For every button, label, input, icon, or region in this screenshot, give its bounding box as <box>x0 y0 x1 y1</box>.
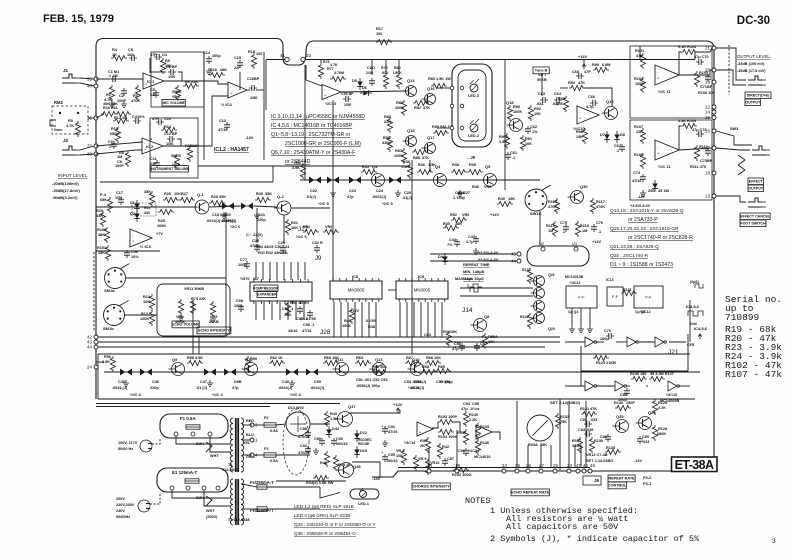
svg-text:.01/50: .01/50 <box>365 319 376 323</box>
svg-text:R101: R101 <box>635 49 644 53</box>
svg-text:FS-1: FS-1 <box>643 482 651 486</box>
DIN connector SM1A <box>105 264 130 289</box>
diode D1 <box>134 200 140 212</box>
svg-text:VR6: VR6 <box>325 225 332 229</box>
svg-text:WHT: WHT <box>206 509 215 513</box>
svg-text:.01 (J): .01 (J) <box>196 386 208 390</box>
wire stub r80 <box>398 60 400 73</box>
svg-text:10%: 10% <box>127 53 135 57</box>
head connector rounded <box>527 246 589 266</box>
svg-text:IC 2: IC 2 <box>146 144 154 149</box>
wire out2 <box>679 148 712 150</box>
capacitor C75 .1 <box>563 224 569 232</box>
resistor R131 47K <box>581 411 597 416</box>
capacitor C4 <box>133 118 141 124</box>
svg-text:LED-2: LED-2 <box>468 134 479 138</box>
wire out2 <box>163 145 204 147</box>
svg-text:Q1~5,8~13,19 : 2SC732TM-GR o: Q1~5,8~13,19 : 2SC732TM-GR or <box>271 132 351 138</box>
fuse F3 <box>264 453 276 457</box>
resistor R12 10K <box>149 294 154 310</box>
wire sm1a to comp <box>126 277 226 279</box>
svg-text:½IC14: ½IC14 <box>468 449 480 453</box>
svg-text:R123: R123 <box>623 288 631 292</box>
svg-text:R43: R43 <box>330 412 337 416</box>
svg-text:IC1.2 : HA1457: IC1.2 : HA1457 <box>214 147 249 153</box>
svg-text:-: - <box>324 87 326 92</box>
resistor R95 <box>563 96 568 112</box>
resistor R14 <box>190 299 195 315</box>
wire heater <box>267 508 320 510</box>
wire J1 sleeve <box>80 83 94 86</box>
svg-text:R39: R39 <box>469 163 476 167</box>
pot VR10 <box>425 459 430 475</box>
diode D44 <box>326 426 332 438</box>
svg-text:R5: R5 <box>165 59 170 63</box>
svg-text:+: + <box>132 239 135 244</box>
resistor R10 <box>101 111 117 116</box>
block preamp2 border <box>150 118 198 178</box>
capacitor C92 470 <box>305 446 311 454</box>
svg-text:Q9: Q9 <box>172 357 178 362</box>
svg-text:OUTPUT LEVEL: OUTPUT LEVEL <box>737 54 770 59</box>
transistor Q21 <box>531 276 545 287</box>
svg-text:½IC 11: ½IC 11 <box>658 164 671 169</box>
LED block border <box>452 64 492 147</box>
svg-text:C96: C96 <box>458 449 465 453</box>
inverter IC15 e <box>615 381 626 391</box>
wire drop short 575 <box>574 445 576 467</box>
wire <box>242 454 252 456</box>
svg-text:47μ: 47μ <box>452 347 459 351</box>
wire IC7 bot pin2 <box>271 302 273 320</box>
resistor R42 <box>437 443 442 459</box>
resistor R17 100 <box>376 39 392 44</box>
resistor R14 <box>161 127 177 132</box>
wire route 166 <box>198 165 410 167</box>
svg-text:IC 1: IC 1 <box>147 79 155 84</box>
svg-text:OUTPUT: OUTPUT <box>748 186 764 190</box>
wire IC7 pin3 <box>276 262 278 280</box>
resistor R11 <box>115 111 131 116</box>
resistor R81 100K <box>401 100 406 116</box>
svg-text:R88: R88 <box>413 156 420 160</box>
label 12.5 <box>695 284 703 288</box>
svg-text:-14V: -14V <box>637 195 645 199</box>
pot VR11 <box>178 299 183 315</box>
wire rail a <box>96 403 340 405</box>
svg-text:680K: 680K <box>657 432 666 436</box>
capacitor C95 100/16 <box>382 454 388 462</box>
wire to LED <box>320 487 340 498</box>
svg-text:R47: R47 <box>344 319 351 323</box>
analog gate <box>221 369 239 376</box>
pin T1-1 <box>250 438 258 443</box>
resistor R150 38K <box>104 227 109 243</box>
svg-text:2 Symbols (J), * indicate cap: 2 Symbols (J), * indicate capacitor of 5… <box>490 534 700 544</box>
wire IC9 pin5 <box>434 302 436 337</box>
transistor Q11 <box>333 363 349 376</box>
resistor R25 <box>158 209 174 214</box>
svg-text:R138: R138 <box>606 446 615 450</box>
resistor R27 40K <box>179 197 195 202</box>
svg-text:C57: C57 <box>480 342 487 346</box>
resistor R129 2.2K <box>652 399 657 415</box>
resistor R151 18K <box>105 245 110 261</box>
svg-text:F2: F2 <box>264 416 268 420</box>
fuse E1 terminals <box>170 486 174 490</box>
svg-text:C5: C5 <box>128 48 133 52</box>
wire J1 tip <box>80 78 94 79</box>
capacitor C5 <box>129 55 137 61</box>
diode D2 <box>134 210 140 222</box>
capacitor C57 <box>474 343 480 351</box>
capacitor C87 <box>442 458 448 466</box>
diode D4 <box>442 253 448 265</box>
svg-text:F-F: F-F <box>578 295 585 300</box>
svg-text:R152 100Ω: R152 100Ω <box>452 473 472 477</box>
svg-text:0.5A: 0.5A <box>270 429 278 433</box>
svg-text:47P: 47P <box>584 70 591 74</box>
svg-text:R80: R80 <box>394 66 401 70</box>
svg-text:J6: J6 <box>594 478 600 483</box>
svg-text:C43: C43 <box>468 235 475 239</box>
svg-text:R108: R108 <box>634 153 643 157</box>
node U3 <box>574 247 578 251</box>
svg-text:13: 13 <box>705 194 710 199</box>
resistor R41 2K <box>425 437 430 453</box>
wire <box>646 385 648 387</box>
capacitor C12 BP <box>167 136 175 142</box>
wire IC8 pin6 <box>375 302 377 337</box>
capacitor <box>297 306 303 314</box>
wire <box>679 385 690 387</box>
wire IC8 pin5 <box>368 302 370 337</box>
svg-text:FS-2: FS-2 <box>643 476 651 480</box>
svg-text:Q15,17,20,22,23 : 2SC1915-GR: Q15,17,20,22,23 : 2SC1915-GR <box>610 226 679 232</box>
resistor R90 100K <box>507 105 512 121</box>
svg-text:10%: 10% <box>131 255 139 259</box>
capacitor C56 <box>459 343 465 351</box>
resistor R5 15K <box>160 58 165 74</box>
svg-text:100: 100 <box>256 52 262 56</box>
capacitor C98 100p <box>238 304 244 312</box>
svg-text:MAX 10μs: MAX 10μs <box>455 277 473 281</box>
svg-text:R81: R81 <box>396 101 403 105</box>
svg-text:R33: R33 <box>443 330 450 334</box>
capacitor C74 47/16 <box>640 174 646 182</box>
resistor R20 33K <box>100 211 105 227</box>
wire <box>150 71 166 73</box>
svg-text:MC14016: MC14016 <box>474 455 490 459</box>
svg-text:75K: 75K <box>560 420 567 424</box>
pin 13 <box>705 194 716 199</box>
svg-text:R20: R20 <box>96 209 103 213</box>
wire J2 sleeve <box>80 154 94 155</box>
wire switch <box>738 165 745 175</box>
resistor R69 <box>435 368 451 373</box>
svg-text:IC13: IC13 <box>606 278 614 282</box>
wire bus44 <box>98 346 545 348</box>
block preamp1 border <box>151 52 204 107</box>
capacitor C64 <box>554 97 562 103</box>
svg-text:33K: 33K <box>96 214 103 218</box>
wire drop short 541 <box>540 445 542 467</box>
capacitor C96 <box>463 448 469 456</box>
pin 17 <box>705 146 716 151</box>
fuse F1 terminals <box>174 432 178 436</box>
svg-text:R87: R87 <box>395 149 402 153</box>
resistor R102 100K <box>640 77 645 93</box>
svg-text:R91: R91 <box>525 137 532 141</box>
svg-text:IC4,5,6: IC4,5,6 <box>694 326 708 331</box>
svg-text:100K: 100K <box>157 224 166 228</box>
IC7 compander DIP <box>250 279 312 304</box>
svg-text:J1: J1 <box>63 68 69 73</box>
svg-text:-: - <box>132 233 134 238</box>
svg-text:50/60 Hz: 50/60 Hz <box>118 447 133 451</box>
wire <box>192 300 194 336</box>
svg-text:R79: R79 <box>381 66 388 70</box>
svg-text:+: + <box>657 76 660 81</box>
resistor R4 1K <box>111 55 127 60</box>
wire gnd a <box>571 308 573 326</box>
svg-text:50K B: 50K B <box>171 154 181 158</box>
diode D7 <box>604 131 610 143</box>
wire <box>95 519 97 521</box>
svg-text:R41 R42 43K 45: R41 R42 43K 45 <box>258 251 286 255</box>
ground <box>457 190 463 196</box>
svg-text:½IC 4: ½IC 4 <box>290 392 301 397</box>
svg-text:R40: R40 <box>498 197 505 201</box>
resistor R26 10K <box>163 197 179 202</box>
svg-text:C13: C13 <box>219 119 226 123</box>
pin 37 <box>87 144 98 149</box>
svg-text:C91: C91 <box>388 425 395 429</box>
svg-text:ECHO VOLUME: ECHO VOLUME <box>171 323 200 327</box>
svg-text:R56: R56 <box>104 355 111 359</box>
svg-text:C9: C9 <box>108 140 113 144</box>
wire trunk B <box>539 211 541 246</box>
flip-flop IC13 <box>607 287 623 306</box>
capacitor C68 47P <box>576 73 584 79</box>
wire SW4 contact <box>206 442 212 452</box>
capacitor C44 <box>454 239 460 247</box>
ground <box>330 190 336 196</box>
wire <box>254 424 264 426</box>
resistor R130 150P <box>615 405 631 410</box>
svg-text:18K: 18K <box>98 251 105 255</box>
wire SW4b contact <box>206 496 212 506</box>
svg-text:44: 44 <box>87 345 92 350</box>
svg-text:Q6,7,10 : 2S430ATM-Y or 2S43: Q6,7,10 : 2S430ATM-Y or 2S430A-F <box>271 150 355 156</box>
svg-text:C87: C87 <box>447 457 454 461</box>
pin 45 <box>511 252 521 257</box>
svg-text:.0022(J): .0022(J) <box>278 386 293 390</box>
svg-text:C67: C67 <box>614 144 621 148</box>
svg-text:(2μS): (2μS) <box>690 280 699 284</box>
svg-text:EFFECT CANCEL: EFFECT CANCEL <box>740 214 771 218</box>
svg-text:J21: J21 <box>668 349 679 356</box>
svg-text:68K: 68K <box>100 198 107 202</box>
svg-text:41: 41 <box>280 53 286 58</box>
pin T1-3 <box>250 423 258 428</box>
svg-text:½ IC3: ½ IC3 <box>140 244 151 249</box>
svg-text:C96 .1: C96 .1 <box>303 323 314 327</box>
svg-text:4.7K: 4.7K <box>66 124 74 128</box>
capacitor C77 100p <box>244 261 250 269</box>
resistor R48 <box>333 455 338 471</box>
resistor R35 <box>361 169 377 174</box>
svg-text:P-4: P-4 <box>100 193 107 197</box>
wire echo row bus <box>300 179 540 181</box>
svg-text:LED-3: LED-3 <box>468 94 479 98</box>
resistor R110 <box>694 145 699 161</box>
svg-text:R96: R96 <box>576 130 583 134</box>
pin 15 <box>705 115 716 120</box>
svg-text:47/16: 47/16 <box>388 430 398 434</box>
pin 36 <box>87 116 98 121</box>
svg-text:R46: R46 <box>320 461 327 465</box>
capacitor C71 BP <box>705 74 711 82</box>
svg-text:Q35: Q35 <box>616 414 624 419</box>
svg-text:C64: C64 <box>554 92 562 96</box>
svg-text:-: - <box>657 145 659 150</box>
svg-text:C28: C28 <box>252 239 259 243</box>
wire J2 tip <box>80 146 94 150</box>
svg-text:R137: R137 <box>572 439 581 443</box>
capacitor C63 <box>540 97 548 103</box>
svg-text:Q37: Q37 <box>348 404 356 409</box>
diode D6 <box>360 90 372 96</box>
resistor R118 1M <box>575 221 580 237</box>
svg-text:L80K: L80K <box>393 71 402 75</box>
wire <box>452 422 462 432</box>
pin 29 <box>515 463 520 473</box>
resistor R134 <box>463 429 468 445</box>
resistor R6 22K <box>183 83 199 88</box>
svg-text:VR 1: VR 1 <box>172 95 180 99</box>
box label ECHO VOLUME <box>171 321 200 328</box>
capacitor CAO 1/30 <box>369 78 375 86</box>
analog gate <box>303 369 321 376</box>
pin 40 <box>87 84 98 89</box>
svg-text:SM1b: SM1b <box>103 326 114 331</box>
wire stub c <box>694 52 696 60</box>
wire <box>242 508 257 510</box>
svg-text:E1 125mA-T: E1 125mA-T <box>172 470 197 475</box>
svg-text:R68 10K: R68 10K <box>426 356 441 360</box>
svg-text:+: + <box>324 93 327 98</box>
resistor R101 47K <box>640 53 645 69</box>
wire <box>172 490 230 498</box>
svg-text:C95: C95 <box>472 402 479 406</box>
svg-text:10K: 10K <box>450 330 457 334</box>
resistor R77 4.70M <box>330 76 346 81</box>
wire trunk D <box>559 399 561 470</box>
capacitor C80 100p <box>624 388 630 396</box>
svg-text:+14V: +14V <box>490 213 499 217</box>
capacitor C62 <box>525 126 531 134</box>
zener diode <box>652 180 658 192</box>
svg-text:1%: 1% <box>532 130 538 134</box>
DIN connector SW1C <box>525 185 551 211</box>
wire <box>150 122 152 139</box>
svg-text:-: - <box>419 424 421 429</box>
svg-text:Q20: Q20 <box>548 327 555 331</box>
capacitor C70 47u <box>696 59 704 65</box>
svg-text:C77: C77 <box>240 258 247 262</box>
fuse Fs 250mA <box>257 485 267 489</box>
resistor R107 47K <box>640 128 645 144</box>
svg-text:R58 3.9K: R58 3.9K <box>187 356 203 360</box>
svg-text:D9B: D9B <box>234 380 242 384</box>
svg-text:22P: 22P <box>234 66 241 70</box>
pot 50KB VR1 <box>175 85 180 101</box>
svg-text:R77: R77 <box>327 67 334 71</box>
svg-text:R91b: R91b <box>499 135 509 139</box>
wire rail b <box>96 406 270 408</box>
resistor R92 10K <box>528 105 533 121</box>
svg-text:EXPANDER: EXPANDER <box>257 292 277 296</box>
capacitor C96 <box>124 250 130 258</box>
svg-text:40K 15K: 40K 15K <box>103 102 118 106</box>
svg-text:R94: R94 <box>568 81 576 85</box>
resistor R56 3.9K <box>110 356 115 372</box>
wire <box>580 346 582 386</box>
wire trunk C <box>689 300 691 342</box>
svg-text:47K: 47K <box>636 54 643 58</box>
wire comp drop <box>225 212 227 337</box>
svg-text:39 3.3M R127: 39 3.3M R127 <box>650 372 674 376</box>
svg-text:C95: C95 <box>388 453 395 457</box>
svg-text:33 1W: 33 1W <box>658 189 669 193</box>
transistor Q4 <box>431 174 447 187</box>
svg-text:47p: 47p <box>232 386 239 390</box>
svg-text:100P: 100P <box>117 99 126 103</box>
resistor R63 <box>355 360 371 365</box>
transistor Q18 <box>507 119 523 132</box>
svg-text:6.8M: 6.8M <box>602 63 610 67</box>
svg-text:-14V: -14V <box>634 459 642 463</box>
svg-text:150P: 150P <box>626 401 635 405</box>
wire tone down <box>504 100 506 190</box>
wire plug2 <box>150 492 160 504</box>
svg-text:+14V: +14V <box>578 55 587 59</box>
wire link rows <box>581 370 688 372</box>
svg-text:R12: R12 <box>114 116 121 120</box>
svg-text:1/½w: 1/½w <box>470 407 479 411</box>
svg-text:R27: R27 <box>181 192 188 196</box>
analog gate <box>117 369 135 376</box>
svg-text:C51 .001 C52 C53: C51 .001 C52 C53 <box>356 378 387 382</box>
svg-text:20: 20 <box>705 68 710 73</box>
svg-text:C23: C23 <box>349 189 356 193</box>
svg-text:47/16: 47/16 <box>632 179 642 183</box>
ground <box>640 190 646 196</box>
svg-text:C47: C47 <box>200 380 207 384</box>
svg-text:D1 ~ 9 : 1S1588 or 1S2473: D1 ~ 9 : 1S1588 or 1S2473 <box>610 262 673 268</box>
svg-text:47/16: 47/16 <box>302 329 312 333</box>
svg-text:R15: R15 <box>185 144 192 148</box>
capacitor C9 .1 <box>111 141 117 149</box>
resistor R138 <box>605 449 621 454</box>
resistor R136 <box>475 439 480 455</box>
wire IC7 bot pin4 <box>287 302 289 320</box>
svg-text:R41: R41 <box>420 439 427 443</box>
svg-text:Q13: Q13 <box>375 357 383 362</box>
svg-text:½IC15: ½IC15 <box>666 393 677 397</box>
resistor R135 <box>475 423 480 439</box>
